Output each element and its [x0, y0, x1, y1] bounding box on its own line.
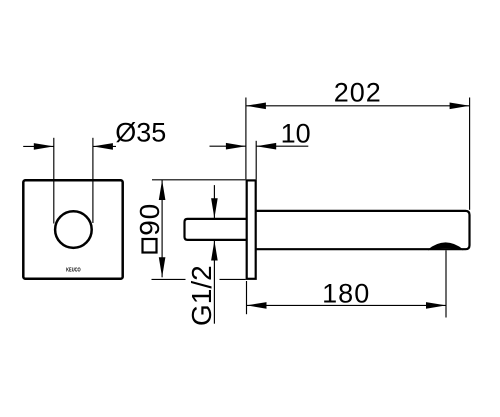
svg-text:KEUCO: KEUCO	[66, 267, 81, 273]
svg-text:202: 202	[334, 78, 382, 108]
svg-text:180: 180	[322, 278, 370, 308]
svg-text:G1/2: G1/2	[186, 265, 217, 326]
svg-text:90: 90	[134, 203, 165, 236]
svg-text:10: 10	[281, 119, 311, 149]
svg-text:Ø35: Ø35	[115, 118, 166, 148]
